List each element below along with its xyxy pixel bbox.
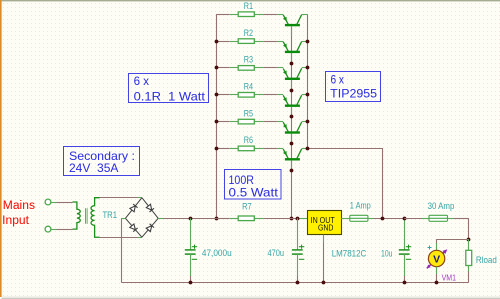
label R1 [244,1,253,11]
junction: output node / collector bus [381,217,385,221]
junction: left bus / R4 [215,93,219,97]
svg-text:R7: R7 [242,202,252,212]
label R3 [244,55,253,65]
junction: right bus / Q4 collector [306,93,310,97]
wire: left bus to R4 [216,94,229,96]
annotation box: 6 x 0.1R 1 Watt [129,74,209,104]
junction: right bus / Q3 collector [306,66,310,70]
label 47,000u [202,248,232,258]
junction: output node / C3 [403,217,407,221]
resistor R6 0.1R [229,146,263,151]
label Mains Input [2,200,35,227]
svg-text:GND: GND [318,223,333,233]
capacitor C1 47,000u [185,218,197,282]
wire: left bus to R6 [216,148,229,150]
wire: base chain vertical [291,26,293,218]
resistor R2 0.1R [229,39,263,44]
junction: base chain / Q6 base [290,169,294,173]
wire: bridge positive to main rail [158,218,190,220]
junction: left bus / R3 [215,66,219,70]
wire: output node to fuse F2 [404,218,422,220]
capacitor C2 470u [292,218,304,282]
wire: secondary bottom to bridge [100,237,142,239]
wire: main rail C1 to left bus [190,218,216,220]
regulator U1 LM7812C [308,211,342,235]
svg-text:0.1R 1 Watt: 0.1R 1 Watt [134,89,206,103]
transistor Q3 TIP2955 (PNP) [277,68,308,91]
junction: left bus / R2 [215,40,219,44]
wire: left bus to R3 [216,67,229,69]
wire: left bus to R5 [216,121,229,123]
svg-text:TIP2955: TIP2955 [330,87,377,101]
wire: R3 to Q3 emitter [263,67,277,69]
junction: base chain / Q3 base [290,89,294,93]
wire: fuse F2 to load [454,218,469,239]
junction: ground rail / C1 [189,281,193,285]
junction: ground rail / C3 [403,281,407,285]
transistor Q4 TIP2955 (PNP) [277,95,308,117]
transistor Q1 TIP2955 (PNP) [277,15,308,37]
resistor R3 0.1R [229,66,263,71]
terminal: mains live [45,199,56,205]
diode D3 (bridge left-bottom) [125,218,141,237]
svg-text:1 Amp: 1 Amp [350,201,371,211]
wire: collector bus to fuse output node [308,148,384,218]
wire: regulator GND to ground rail [323,235,325,283]
junction: right bus / Q5 collector [306,120,310,124]
label VM1 [442,273,457,283]
junction: base chain / Q4 base [290,115,294,119]
wire: R5 to Q5 emitter [263,121,277,123]
wire: R1 to Q1 emitter [263,14,277,16]
svg-text:30 Amp: 30 Amp [428,201,455,211]
resistor R5 0.1R [229,119,263,124]
wire: secondary top to bridge [100,197,142,199]
fuse F1 1 Amp [341,215,373,221]
label R4 [244,82,253,92]
svg-text:Mains: Mains [3,200,35,212]
wire: left bus to R7 [216,218,229,220]
label R6 [244,135,253,145]
terminal: mains neutral [45,226,56,232]
junction: right bus / Q2 collector [306,40,310,44]
label R5 [244,108,253,118]
svg-text:R5: R5 [244,108,253,118]
junction: main rail / C1 [189,217,193,221]
junction: main rail / C2 [296,217,300,221]
junction: base chain / Q5 base [290,142,294,146]
label R2 [244,28,253,38]
svg-text:0.5 Watt: 0.5 Watt [229,185,279,199]
wire: left bus to R2 [216,41,229,43]
transistor Q6 TIP2955 (PNP) [277,149,308,171]
wire: left bus to R1 [216,14,229,16]
junction: ground rail / regulator GND [322,281,326,285]
junction: ground rail / VM1 [435,281,439,285]
svg-text:6 x: 6 x [134,74,149,88]
wire: neutral to transformer [57,229,73,231]
svg-text:24V 35A: 24V 35A [69,161,118,175]
transistor Q2 TIP2955 (PNP) [277,41,308,63]
wire: R4 to Q4 emitter [263,94,277,96]
svg-text:47,000u: 47,000u [202,248,232,258]
svg-text:6 x: 6 x [331,73,345,87]
junction: base chain / main wire [290,217,294,221]
junction: left bus / R6 [215,147,219,151]
resistor Rload [466,239,472,282]
svg-text:R4: R4 [244,82,253,92]
label Rload [476,255,497,265]
svg-text:Rload: Rload [476,255,497,265]
junction: load node / voltmeter [467,238,471,242]
wire: R6 to Q6 emitter [263,148,277,150]
wire: left input bus vertical [216,14,218,218]
junction: ground rail / C2 [296,281,300,285]
label TR1 [103,210,118,220]
label 470u [268,248,285,258]
fuse F2 30 Amp [422,215,454,221]
svg-text:R1: R1 [244,1,253,11]
resistor R7 100R [229,216,263,221]
resistor R1 0.1R [229,12,263,17]
wire: R7 to regulator input node [263,218,307,220]
wire: bridge negative to ground rail [121,218,125,282]
voltmeter VM1 [427,246,448,269]
label 30 Amp [428,201,455,211]
junction: left bus / R5 [215,120,219,124]
diode D4 (bridge bottom-right) [142,218,158,237]
svg-text:10u: 10u [381,248,393,258]
capacitor C3 10u [399,218,411,282]
junction: left bus / main wire [215,217,219,221]
svg-text:TR1: TR1 [103,210,118,220]
wire: ground rail [121,282,468,284]
svg-text:V: V [433,253,440,265]
transistor Q5 TIP2955 (PNP) [277,122,308,144]
wire: fuse F1 to output node [374,218,405,220]
label 10u [381,248,393,258]
wire: R2 to Q2 emitter [263,41,277,43]
svg-text:Input: Input [2,215,30,227]
wire: voltmeter bottom to ground rail [436,267,438,283]
svg-text:470u: 470u [268,248,285,258]
annotation box: Secondary 24V 35A [64,147,140,176]
transformer TR1 [73,198,100,238]
svg-text:R3: R3 [244,55,253,65]
resistor R4 0.1R [229,93,263,98]
junction: base chain / Q2 base [290,62,294,66]
label R7 [242,202,252,212]
wire: live to transformer [57,202,73,204]
diode D2 (bridge top-right) [142,198,158,219]
annotation box: 100R 0.5 Watt [225,170,282,200]
diode D1 (bridge left-top) [125,198,141,219]
wire: right collector bus vertical [307,14,309,148]
junction: right bus / Q6 collector [306,147,310,151]
annotation box: 6 x TIP2955 [326,72,381,102]
svg-text:LM7812C: LM7812C [332,248,367,258]
label LM7812C [332,248,367,258]
label 1 Amp [350,201,371,211]
svg-text:VM1: VM1 [442,273,457,283]
svg-text:R6: R6 [244,135,253,145]
svg-text:R2: R2 [244,28,253,38]
wire: voltmeter top branch [437,239,469,250]
